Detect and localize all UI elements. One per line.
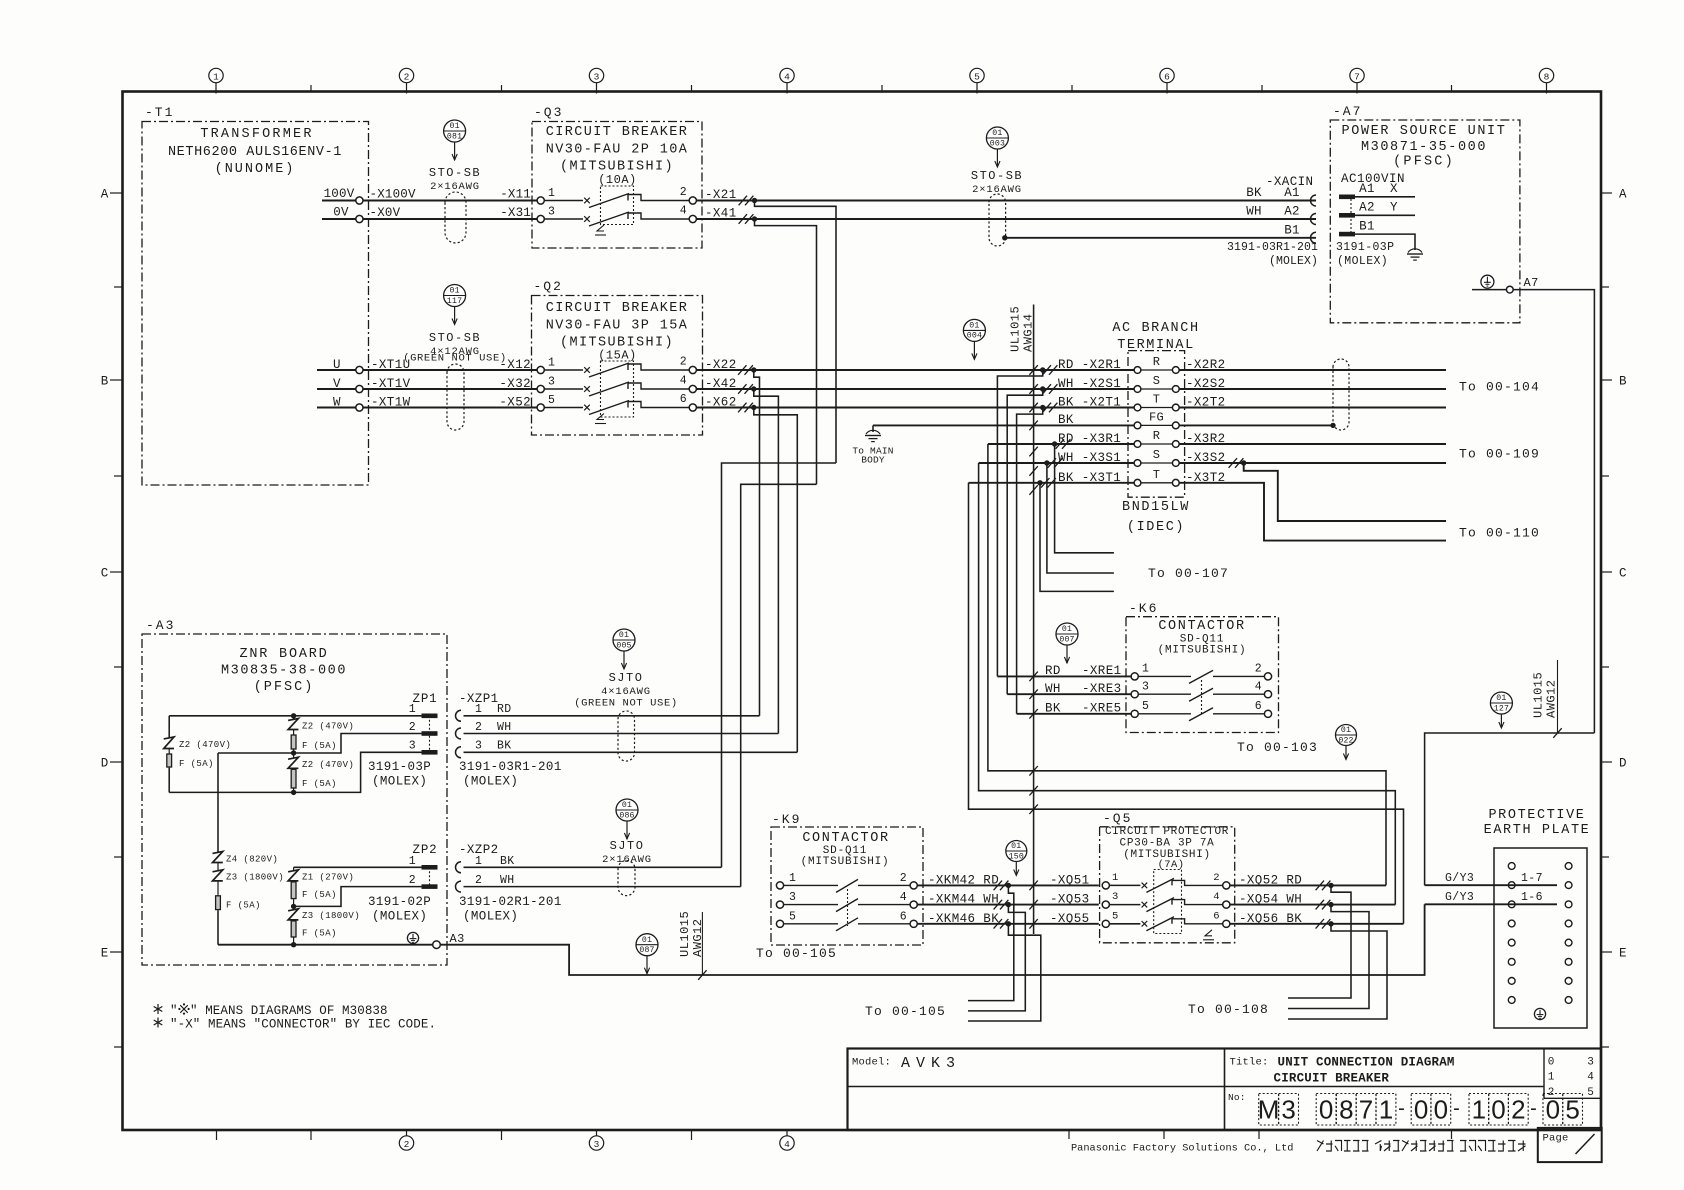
svg-text:A7: A7 (1524, 276, 1539, 290)
svg-text:150: 150 (1009, 852, 1024, 861)
svg-text:Z2 (470V): Z2 (470V) (179, 740, 231, 750)
svg-text:2: 2 (404, 72, 410, 83)
svg-text:2×16AWG: 2×16AWG (972, 184, 1022, 196)
svg-text:Y: Y (1390, 201, 1398, 215)
terminal BND15LW pins (1134, 355, 1179, 486)
svg-text:2: 2 (680, 186, 687, 199)
fuse F5A mid-upper (291, 730, 337, 754)
svg-text:BK: BK (500, 855, 515, 868)
Q2 trip linkage (595, 414, 606, 424)
svg-text:1: 1 (475, 855, 482, 868)
ground to main body (852, 425, 893, 465)
svg-text:01: 01 (992, 129, 1002, 138)
svg-text:1: 1 (409, 855, 416, 868)
cable marker oval A7 (989, 194, 1006, 246)
cable ref 01/117 (444, 285, 466, 325)
svg-text:-X100V: -X100V (370, 188, 417, 202)
svg-text:CIRCUIT BREAKER: CIRCUIT BREAKER (546, 125, 689, 140)
wire to 00-107 b (1047, 463, 1114, 573)
cable ref 01/007 (1056, 623, 1078, 663)
svg-text:3: 3 (1281, 1095, 1295, 1125)
svg-text:CP30-BA 3P 7A: CP30-BA 3P 7A (1120, 838, 1215, 850)
svg-text:WH: WH (497, 721, 512, 734)
connector 3191-03R1-201 label (1227, 241, 1318, 268)
T1 terminal V (317, 377, 363, 393)
T1 terminal U (317, 358, 363, 374)
wire UL1015 AWG12 right (1425, 728, 1595, 885)
svg-text:003: 003 (990, 139, 1005, 148)
wire B1 neutral (1002, 235, 1316, 240)
svg-text:3191-02P: 3191-02P (368, 895, 431, 909)
svg-text:ZP2: ZP2 (413, 843, 438, 857)
svg-text:100V: 100V (324, 187, 355, 201)
svg-text:2: 2 (1255, 663, 1262, 676)
svg-text:SJTO: SJTO (610, 839, 645, 853)
svg-text:6: 6 (1164, 72, 1170, 83)
svg-text:5: 5 (974, 72, 980, 83)
wire -X21 (696, 188, 1316, 205)
T1 terminal W (317, 396, 363, 412)
svg-text:Title:: Title: (1230, 1057, 1269, 1069)
svg-text:SJTO: SJTO (609, 671, 644, 685)
svg-text:M30871-35-000: M30871-35-000 (1361, 140, 1487, 155)
svg-text:-X3S2: -X3S2 (1186, 451, 1226, 465)
svg-text:-: - (1530, 1098, 1537, 1120)
wire -XT1V (363, 377, 537, 391)
svg-text:To 00-105: To 00-105 (865, 1004, 946, 1019)
svg-text:-X52: -X52 (499, 396, 531, 410)
svg-text:WH -X3S1: WH -X3S1 (1058, 451, 1121, 465)
svg-text:4: 4 (900, 891, 907, 904)
ZNR board A3 box (142, 618, 447, 965)
A7 case earth symbol (1481, 275, 1494, 288)
svg-text:(MOLEX): (MOLEX) (372, 910, 427, 924)
wire -X2R2 (1179, 358, 1446, 372)
svg-text:F (5A): F (5A) (302, 890, 337, 900)
wire X42 branch to XZP1-2 (754, 389, 779, 734)
cable ref 01/022 (1336, 725, 1357, 760)
svg-text:Z3 (1800V): Z3 (1800V) (226, 873, 284, 883)
svg-text:(MITSUBISHI): (MITSUBISHI) (801, 856, 890, 868)
svg-text:WH: WH (1246, 205, 1261, 219)
K9 pole 5-6 (776, 911, 917, 931)
wire ZP1 pin1 rail (169, 713, 421, 718)
label UL1015 AWG12 left (678, 911, 705, 975)
wire ZP1 pin2 (218, 734, 422, 756)
A7 pin A2 (1339, 201, 1415, 218)
label -X11 (500, 188, 531, 202)
svg-text:004: 004 (967, 332, 982, 341)
svg-text:W: W (333, 396, 341, 410)
label WH A2 (1246, 205, 1299, 219)
wire left riser to Z4 (217, 753, 219, 852)
svg-text:Z3 (1800V): Z3 (1800V) (302, 911, 360, 921)
svg-text:0: 0 (1319, 1095, 1333, 1125)
svg-text:B: B (1619, 375, 1627, 389)
svg-text:RD: RD (1045, 664, 1061, 678)
svg-text:STO-SB: STO-SB (971, 169, 1023, 183)
varistor Z1 (288, 867, 354, 882)
varistor Z3 mid (288, 906, 360, 921)
svg-text:6: 6 (900, 911, 907, 924)
label To 00-105 under K9 (756, 946, 837, 961)
cable ref 01/150 (1006, 841, 1027, 876)
svg-text:BK: BK (1045, 702, 1061, 716)
svg-text:4: 4 (1587, 1072, 1594, 1084)
A7 earth wire to right margin (1513, 290, 1594, 733)
svg-text:2: 2 (680, 356, 687, 369)
cable ref 01/086 (616, 799, 638, 839)
svg-text:S: S (1153, 374, 1161, 388)
wire -XQ56 BK (1230, 912, 1404, 929)
wire to 00-107 a (1055, 444, 1114, 553)
svg-text:3: 3 (789, 891, 796, 904)
svg-text:-XRE3: -XRE3 (1082, 682, 1122, 696)
svg-text:3: 3 (548, 376, 555, 389)
label UL1015 AWG12 right (1532, 660, 1559, 733)
svg-text:(10A): (10A) (598, 173, 637, 187)
wire -XKM44 WH / -XQ53 (917, 893, 1099, 910)
svg-text:M30835-38-000: M30835-38-000 (221, 664, 347, 679)
svg-text:4: 4 (680, 375, 687, 388)
wire -XKM46 BK / -XQ55 (917, 912, 1099, 929)
svg-text:Z1 (270V): Z1 (270V) (302, 873, 354, 883)
svg-text:2×16AWG: 2×16AWG (430, 181, 480, 193)
connector ZP1 (409, 692, 438, 755)
svg-text:-X2T2: -X2T2 (1186, 396, 1226, 410)
svg-text:BK: BK (497, 740, 512, 753)
wire bus 484 to ZP2-2 (741, 484, 817, 886)
T1 terminal 0V (322, 206, 363, 223)
wire -X0V (363, 206, 537, 220)
svg-text:BND15LW: BND15LW (1122, 500, 1190, 515)
transformer T1 box (142, 105, 369, 485)
svg-text:8: 8 (1339, 1095, 1353, 1125)
svg-text:To 00-108: To 00-108 (1188, 1002, 1269, 1017)
svg-text:-X11: -X11 (500, 188, 531, 202)
contactor K6 box (1126, 601, 1279, 733)
ZP2 plug label (368, 895, 431, 924)
cable marker oval output (1333, 359, 1349, 430)
wire -X3S2 To 00-109 (1179, 447, 1540, 468)
svg-text:"-X" MEANS "CONNECTOR" BY IEC: "-X" MEANS "CONNECTOR" BY IEC CODE. (170, 1018, 436, 1032)
label B1 (1284, 224, 1299, 238)
svg-text:Z2 (470V): Z2 (470V) (302, 760, 354, 770)
svg-text:To 00-110: To 00-110 (1459, 526, 1540, 541)
svg-text:1: 1 (475, 703, 482, 716)
Q2 pole 1-2 (537, 356, 696, 378)
ZP1 plug label (368, 760, 431, 789)
wire -X41 (696, 207, 1316, 224)
cable STO-SB 2x16AWG label (A7) (971, 169, 1023, 196)
wire XQ54 branch (1288, 905, 1369, 1009)
svg-text:(IDEC): (IDEC) (1127, 520, 1185, 535)
svg-text:A: A (1619, 188, 1627, 202)
Q5 thermal dotted box (1154, 870, 1182, 934)
fuse F5A left (167, 749, 214, 793)
contactor K9 box (771, 812, 923, 945)
Q5 rating (7A) (1158, 859, 1185, 871)
svg-text:3: 3 (594, 72, 600, 83)
cable ref 01/003 (986, 127, 1008, 167)
varistor Z2 mid-upper (288, 716, 354, 732)
svg-text:-Q2: -Q2 (534, 279, 563, 294)
svg-text:-XACIN: -XACIN (1266, 175, 1313, 189)
svg-text:-XQ52 RD: -XQ52 RD (1239, 873, 1302, 887)
wire ZP1 pin3 (169, 752, 421, 795)
svg-text:1-6: 1-6 (1521, 891, 1543, 904)
wire BK branch to K6-5 (1017, 408, 1043, 714)
svg-text:F (5A): F (5A) (179, 759, 214, 769)
wire ZP2 pin1 (294, 866, 422, 868)
connector -XZP2 (456, 843, 515, 892)
wire ZP2 pin2 (291, 887, 422, 910)
svg-text:No:: No: (1228, 1092, 1246, 1103)
svg-text:-XQ53: -XQ53 (1050, 893, 1090, 907)
wire -XQ54 WH (1230, 893, 1395, 910)
svg-text:WH: WH (500, 874, 515, 887)
K9 pole 1-2 (776, 872, 917, 892)
svg-text:": " (170, 1004, 178, 1018)
svg-text:UL1015: UL1015 (1532, 672, 1546, 718)
Q2 thermal dotted box (601, 361, 634, 417)
svg-text:STO-SB: STO-SB (429, 331, 481, 345)
svg-text:5: 5 (548, 394, 555, 407)
svg-text:-X32: -X32 (499, 377, 531, 391)
cable marker oval XZP2 (618, 861, 635, 896)
fuse F5A Z3 (291, 920, 337, 945)
wire G/Y3 1-7 entry (1425, 872, 1557, 885)
svg-text:BK: BK (1058, 413, 1074, 427)
cable ref 01/081 (444, 120, 466, 160)
svg-text:UL1015: UL1015 (1009, 306, 1023, 352)
svg-text:2: 2 (1511, 1095, 1525, 1125)
wire G/Y3 1-6 entry (1425, 891, 1557, 904)
svg-text:AC BRANCH: AC BRANCH (1112, 321, 1199, 336)
svg-text:X: X (1390, 182, 1398, 196)
label -X31 (500, 206, 531, 220)
svg-text:C: C (101, 567, 109, 581)
svg-text:(MOLEX): (MOLEX) (463, 910, 518, 924)
svg-text:5: 5 (1565, 1095, 1579, 1125)
svg-text:5: 5 (1587, 1087, 1594, 1099)
cable marker oval XZP1 (618, 711, 635, 761)
svg-text:ZNR BOARD: ZNR BOARD (239, 647, 328, 662)
cable STO-SB 4x12AWG label (403, 331, 507, 365)
A3 earth symbol (407, 932, 418, 943)
svg-text:E: E (101, 947, 109, 961)
wire bus 463 to ZP2-1 (722, 463, 837, 867)
svg-text:(MOLEX): (MOLEX) (1269, 255, 1318, 268)
svg-text:1: 1 (409, 703, 416, 716)
connector ZP2 (409, 843, 438, 889)
svg-text:Page: Page (1543, 1133, 1569, 1145)
svg-text:-XKM42 RD: -XKM42 RD (928, 873, 999, 887)
connector -XZP1 (456, 692, 512, 758)
wire to 00-107 c (1040, 483, 1114, 592)
svg-text:1: 1 (789, 872, 796, 885)
svg-text:BK -X3T1: BK -X3T1 (1058, 471, 1121, 485)
Q3 thermal dotted box (601, 186, 634, 225)
svg-text:087: 087 (639, 946, 654, 955)
svg-text:(PFSC): (PFSC) (1393, 155, 1455, 170)
Q3 rating (10A) (598, 173, 637, 187)
wire X22 branch to XZP1-1 (754, 370, 760, 716)
svg-text:M: M (1258, 1095, 1280, 1125)
wire XZP2-2 WH (464, 886, 741, 888)
svg-text:-X3T2: -X3T2 (1186, 471, 1226, 485)
svg-text:F (5A): F (5A) (302, 779, 337, 789)
svg-text:-XKM46 BK: -XKM46 BK (928, 912, 999, 926)
svg-text:V: V (333, 377, 341, 391)
svg-text:-X31: -X31 (500, 206, 531, 220)
wire RD branch to K6-1 (997, 370, 1042, 676)
svg-text:01: 01 (1496, 694, 1506, 703)
svg-text:To 00-105: To 00-105 (756, 946, 837, 961)
svg-text:E: E (1619, 947, 1627, 961)
wire XZP1-1 RD (464, 715, 760, 717)
svg-text:1: 1 (1472, 1095, 1486, 1125)
svg-text:(MOLEX): (MOLEX) (463, 775, 518, 789)
svg-text:CIRCUIT BREAKER: CIRCUIT BREAKER (1274, 1072, 1390, 1086)
svg-text:CONTACTOR: CONTACTOR (802, 831, 889, 846)
svg-text:3: 3 (594, 1139, 600, 1150)
svg-text:CIRCUIT PROTECTOR: CIRCUIT PROTECTOR (1105, 826, 1229, 838)
wire -X3R1 (988, 432, 1134, 449)
svg-text:1: 1 (548, 187, 555, 200)
cable marker oval Q2 input (447, 364, 464, 430)
wire X3R1 loop to Q5 out (988, 444, 1386, 885)
wire -X42 / -X2S1 (696, 377, 1134, 394)
svg-text:NV30-FAU 3P 15A: NV30-FAU 3P 15A (546, 319, 689, 334)
A7 pin A1 (1339, 182, 1415, 199)
A7 internal ground (1407, 249, 1423, 260)
svg-text:RD: RD (497, 703, 512, 716)
wire X62 branch to XZP1-3 (754, 408, 798, 753)
svg-text:1: 1 (548, 357, 555, 370)
svg-text:01: 01 (449, 287, 459, 296)
fuse F5A mid-lower (291, 768, 337, 792)
cable ref 01/127 (1490, 692, 1512, 728)
svg-text:6: 6 (1213, 911, 1220, 923)
svg-text:01: 01 (969, 322, 979, 331)
svg-text:AVK3: AVK3 (901, 1055, 961, 1072)
svg-text:F (5A): F (5A) (302, 741, 337, 751)
svg-text:AWG14: AWG14 (1022, 313, 1036, 352)
svg-text:2: 2 (475, 721, 482, 734)
svg-text:3191-03P: 3191-03P (368, 760, 431, 774)
svg-text:022: 022 (1338, 736, 1353, 745)
wire A3 earth trunk (440, 904, 1424, 980)
Q5 trip linkage (1203, 930, 1214, 940)
svg-text:-XRE5: -XRE5 (1082, 702, 1122, 716)
svg-text:-X0V: -X0V (370, 206, 401, 220)
fuse F5A lower-left (216, 881, 261, 945)
svg-text:117: 117 (447, 297, 462, 306)
wire XQ52 branch (1288, 885, 1351, 998)
svg-text:-Q3: -Q3 (534, 105, 563, 120)
svg-text:A: A (101, 188, 109, 202)
svg-text:01: 01 (642, 936, 652, 945)
wire XKM46 branch (968, 924, 1041, 1021)
wire A3 earth rail (218, 942, 433, 947)
K6 pole 3-4 (1131, 681, 1272, 702)
svg-text:CIRCUIT BREAKER: CIRCUIT BREAKER (546, 301, 689, 316)
T1 terminal 100V (322, 187, 363, 204)
svg-text:2: 2 (475, 874, 482, 887)
wire riser UL1015 AWG14 (1009, 305, 1038, 935)
circuit protector Q5 box (1100, 811, 1235, 943)
svg-text:PROTECTIVE: PROTECTIVE (1488, 808, 1585, 823)
wire -X2S2 To 00-104 (1179, 377, 1540, 395)
Q3 pole 3-4 (537, 205, 696, 227)
XZP1 recept label (459, 760, 562, 789)
svg-text:0: 0 (1546, 1095, 1560, 1125)
svg-text:5: 5 (1112, 911, 1119, 923)
label -X32 (499, 377, 531, 391)
svg-text:UNIT CONNECTION DIAGRAM: UNIT CONNECTION DIAGRAM (1278, 1056, 1455, 1070)
svg-text:BK: BK (1246, 186, 1262, 200)
svg-text:4: 4 (680, 205, 687, 218)
svg-text:STO-SB: STO-SB (429, 166, 481, 180)
wire -X3S1 (979, 451, 1134, 468)
svg-text:(MOLEX): (MOLEX) (372, 775, 427, 789)
footnote 2 (154, 1018, 436, 1032)
wire X21 branch down (755, 201, 837, 464)
svg-text:01: 01 (622, 801, 632, 810)
svg-text:G/Y3: G/Y3 (1445, 891, 1474, 904)
terminal name BND15LW (1122, 500, 1190, 535)
svg-text:-XT1V: -XT1V (371, 377, 411, 391)
svg-text:EARTH PLATE: EARTH PLATE (1484, 823, 1591, 838)
svg-text:0V: 0V (333, 206, 349, 220)
svg-text:G/Y3: G/Y3 (1445, 872, 1474, 885)
varistor Z2 left (164, 716, 232, 750)
K9 linkage dotted (847, 889, 849, 926)
cable marker oval Q3 input (445, 192, 466, 243)
svg-text:-XKM44 WH: -XKM44 WH (928, 893, 999, 907)
label To 00-108 (1188, 1002, 1269, 1017)
svg-text:B: B (101, 375, 109, 389)
svg-text:-XRE1: -XRE1 (1082, 664, 1122, 678)
wire FG BK (873, 413, 1134, 430)
svg-text:R: R (1153, 429, 1161, 443)
svg-text:T: T (1153, 468, 1161, 482)
svg-text:-XQ54 WH: -XQ54 WH (1239, 893, 1302, 907)
Q2 pole 5-6 (537, 393, 696, 415)
svg-text:(MOLEX): (MOLEX) (1337, 255, 1388, 268)
svg-text:1: 1 (1142, 663, 1149, 676)
protective earth plate title (1484, 808, 1591, 838)
cable SJTO 4x16AWG label (574, 671, 678, 710)
svg-text:01: 01 (1011, 842, 1021, 851)
svg-text:5: 5 (1142, 700, 1149, 713)
wire XZP1-3 BK (464, 751, 798, 753)
label To 00-105 (865, 1004, 946, 1019)
K6 pole 5-6 (1131, 700, 1272, 721)
K6 pole 1-2 (1131, 663, 1272, 684)
svg-text:4: 4 (784, 1139, 790, 1150)
AC branch terminal box (1112, 321, 1199, 497)
svg-text:2: 2 (1213, 872, 1220, 884)
svg-text:3: 3 (409, 740, 416, 753)
svg-text:(PFSC): (PFSC) (254, 680, 315, 695)
wire X3T1 loop to Q5 out (969, 483, 1404, 924)
svg-text:127: 127 (1494, 704, 1509, 713)
svg-text:4×16AWG: 4×16AWG (601, 686, 651, 698)
varistor Z4 (213, 851, 279, 864)
svg-text:-X2S2: -X2S2 (1186, 377, 1226, 391)
